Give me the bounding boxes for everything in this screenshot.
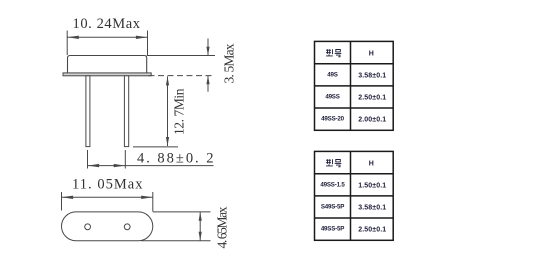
svg-text:3.58±0.1: 3.58±0.1 <box>358 205 386 212</box>
svg-text:H: H <box>369 50 374 57</box>
dimension 4.88±0.2 <box>88 150 214 169</box>
table 1 frame <box>315 41 394 130</box>
svg-text:49SS-20: 49SS-20 <box>321 116 344 123</box>
svg-text:2.00±0.1: 2.00±0.1 <box>358 117 386 124</box>
crystal body side view <box>68 56 147 74</box>
svg-text:1.50±0.1: 1.50±0.1 <box>358 182 386 189</box>
svg-text:49S: 49S <box>327 71 337 78</box>
table 1 header 型号 <box>326 49 341 57</box>
svg-text:10. 24Max: 10. 24Max <box>73 16 141 32</box>
lead pin left <box>86 76 90 147</box>
table 2 header 型号 <box>326 159 341 167</box>
svg-text:3. 5Max: 3. 5Max <box>222 43 237 83</box>
svg-text:2.50±0.1: 2.50±0.1 <box>358 227 386 234</box>
dimension 10.24Max <box>67 31 147 56</box>
bottom view lead hole right <box>124 224 130 230</box>
svg-text:49SS-5P: 49SS-5P <box>321 226 344 233</box>
bottom view lead hole left <box>85 224 91 230</box>
dimension 4.65Max <box>141 212 210 241</box>
lead pin right <box>124 76 128 147</box>
svg-text:12. 7Min: 12. 7Min <box>172 88 187 135</box>
svg-text:49SS-1.5: 49SS-1.5 <box>320 181 345 188</box>
svg-text:H: H <box>369 160 374 167</box>
svg-text:11. 05Max: 11. 05Max <box>72 177 143 193</box>
crystal bottom view outline <box>62 212 153 241</box>
svg-text:3.58±0.1: 3.58±0.1 <box>358 72 386 79</box>
dimension 3.5Max <box>147 39 215 92</box>
svg-text:4. 88±0. 2: 4. 88±0. 2 <box>137 150 214 166</box>
svg-text:S49S-5P: S49S-5P <box>321 204 344 211</box>
svg-text:49SS: 49SS <box>325 94 339 101</box>
table 2 frame <box>315 151 394 240</box>
svg-text:4. 65Max: 4. 65Max <box>215 206 230 248</box>
crystal base flange <box>63 73 151 76</box>
dimension 12.7Min <box>133 76 178 146</box>
svg-text:2.50±0.1: 2.50±0.1 <box>358 95 386 102</box>
